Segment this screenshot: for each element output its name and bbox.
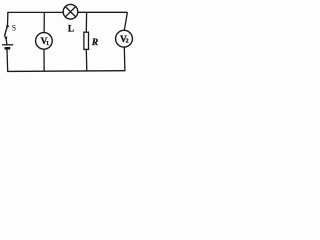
wire V1 branch bottom [43,49,45,71]
wire V1 branch top [43,12,45,32]
wire left side (corner to switch) [7,12,9,26]
resistor R [84,32,89,49]
svg-text:L: L [68,25,74,35]
wire R branch top [85,12,87,32]
wire top right segment [78,11,128,13]
svg-text:2: 2 [126,39,129,45]
wire battery to bottom corner [6,49,9,71]
wire R branch bottom [85,49,88,71]
wire top left segment [7,11,63,13]
voltmeter V2 [116,30,133,47]
wire bottom [7,70,125,73]
svg-text:S: S [12,24,17,33]
battery [2,45,13,49]
wire right side top [124,12,127,30]
voltmeter V1 [36,33,53,50]
svg-text:R: R [91,38,98,48]
svg-text:1: 1 [46,41,49,47]
wire right side bottom [123,47,126,71]
switch S [4,25,8,39]
lamp L [63,4,78,19]
wire switch to battery [5,39,8,45]
